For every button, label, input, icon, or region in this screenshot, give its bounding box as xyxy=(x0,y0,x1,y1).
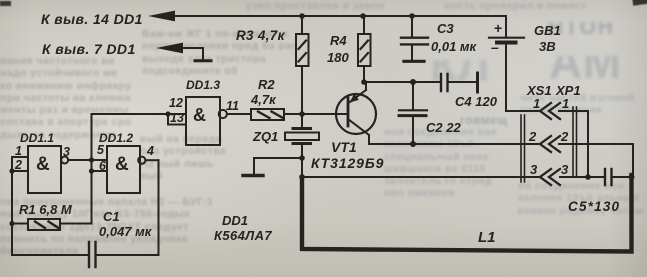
wire: ZQ1 bottom to common node xyxy=(301,145,303,158)
connector housing separation lines xyxy=(521,107,577,182)
wire: top supply rail xyxy=(172,15,506,17)
wire: arrowhead to pin 7 DD1 xyxy=(156,43,183,54)
svg-text:4: 4 xyxy=(146,144,154,158)
wire: pin 11 to R2 left xyxy=(227,113,251,115)
svg-text:1: 1 xyxy=(562,96,569,111)
svg-text:C3: C3 xyxy=(437,21,454,36)
ground: common-rail bar on pin-7 stub xyxy=(195,59,211,62)
node: junction dot rail/R3 xyxy=(299,13,305,19)
ground: chassis bar right of C4 xyxy=(476,73,479,92)
connector XP1 pin 1 contact xyxy=(549,103,560,119)
connector XP1 pin 3 contact xyxy=(549,169,560,185)
node: battery polarity signs xyxy=(491,20,502,55)
wire: pin-7 net stub xyxy=(180,48,203,60)
ground: chassis bar below C3 xyxy=(404,60,424,63)
svg-text:C5*130: C5*130 xyxy=(568,199,620,214)
transistor VT1 base bar xyxy=(347,98,350,126)
wire: DD1.1 output branch up to DD1.3 inputs 12/13 xyxy=(92,113,187,115)
node: junction dot ZQ1 bottom xyxy=(299,155,305,161)
pin numbers of XS1/XP1 xyxy=(528,96,569,177)
wire: rail to C3 top plate xyxy=(411,16,413,37)
wire: collector row to XS1 pin 2 xyxy=(369,143,540,145)
connector XS1 pin 2 contact xyxy=(540,136,551,152)
capacitor C5 xyxy=(605,169,612,185)
svg-text:3: 3 xyxy=(63,145,70,159)
node: inversion bubble DD1.3 output xyxy=(219,110,227,118)
svg-text:DD1: DD1 xyxy=(222,213,248,228)
svg-text:VT1: VT1 xyxy=(331,139,357,155)
wire: pin 6 stub xyxy=(92,170,108,172)
svg-text:2: 2 xyxy=(560,129,569,144)
capacitor C1 xyxy=(89,242,96,267)
transistor VT1 emitter lead (arrow toward base, PNP) xyxy=(350,90,366,102)
node: junction dot at pin 5 xyxy=(89,157,94,162)
node: junction dot R1 left xyxy=(9,221,14,226)
svg-text:C2 22: C2 22 xyxy=(426,120,461,135)
resistor R1 xyxy=(28,219,60,230)
wire: C1 right lead xyxy=(96,254,159,256)
node: junction dot base/R2/R3/ZQ1 xyxy=(299,111,305,117)
node: junction dot pins 1-2 xyxy=(9,168,14,173)
node: junction dot at pin 6 xyxy=(89,168,94,173)
node: junction dot pins 12-13 xyxy=(165,111,170,116)
gate DD1.2 body xyxy=(107,146,140,193)
designator VT1 КТ3129Б9 xyxy=(311,139,384,171)
svg-text:К выв. 14 DD1: К выв. 14 DD1 xyxy=(41,11,143,27)
ground: common bar left of ZQ1 xyxy=(243,174,263,177)
resistor R4 xyxy=(358,34,371,66)
node: junction dot loop top / C5 / pin 2 xyxy=(629,174,635,180)
wire: base node down to ZQ1 xyxy=(301,114,303,127)
svg-text:4,7к: 4,7к xyxy=(250,92,277,107)
svg-text:К564ЛА7: К564ЛА7 xyxy=(214,228,272,243)
node: junction dot R4/emitter xyxy=(361,79,367,85)
pin labels 12 13 11 of DD1.3 xyxy=(169,96,239,125)
svg-text:L1: L1 xyxy=(478,229,496,246)
pin labels 1 2 3 of DD1.1 xyxy=(14,144,70,172)
wire: R1 left lead xyxy=(12,223,28,225)
svg-text:6: 6 xyxy=(99,159,107,173)
designators XS1 XP1 xyxy=(526,83,581,98)
wire: common node down to loop corner xyxy=(301,158,303,177)
wire: battery minus down and right to XS1 pin 1 xyxy=(506,44,540,111)
value label R4 180 xyxy=(327,33,349,65)
wire: C1 left lead xyxy=(12,254,89,256)
svg-text:GB1: GB1 xyxy=(534,23,561,38)
svg-text:C4 120: C4 120 xyxy=(455,94,498,109)
value label C3 0,01 мк xyxy=(431,21,478,54)
wire: C5 right lead to loop xyxy=(612,176,631,178)
wire: R2 right lead to base node xyxy=(284,113,302,115)
svg-text:–: – xyxy=(491,39,499,55)
svg-text:DD1.3: DD1.3 xyxy=(186,78,220,92)
svg-text:2: 2 xyxy=(528,129,537,144)
svg-text:3: 3 xyxy=(530,162,538,177)
transistor VT1 collector lead xyxy=(348,119,369,144)
svg-text:11: 11 xyxy=(226,99,239,113)
wire: C2 top stub xyxy=(412,82,414,110)
svg-text:R4: R4 xyxy=(330,33,347,48)
battery GB1 positive plate xyxy=(489,37,524,39)
wire: R3 bottom to base node xyxy=(301,66,303,114)
wire: DD1.1 output to DD1.2 pin 5 xyxy=(68,159,107,161)
wire: DD1.1 input vertical down to R1/C1 xyxy=(11,157,13,255)
svg-text:2: 2 xyxy=(14,158,22,172)
resistor R3 xyxy=(296,34,309,66)
wire: rail corner down to battery xyxy=(505,16,507,36)
gate DD1.1 body xyxy=(28,146,61,193)
inductor L1 single-turn loop antenna xyxy=(302,175,632,252)
wire: common node left stub xyxy=(254,158,302,175)
svg-text:0,01 мк: 0,01 мк xyxy=(431,39,478,54)
svg-text:&: & xyxy=(115,154,129,175)
connector XS1 pin 1 contact xyxy=(540,103,551,119)
wire: R4 bottom to emitter node xyxy=(363,66,365,82)
node: junction dot at loop corner xyxy=(299,174,305,180)
wire: pin 4 corner down to C1 right xyxy=(158,160,160,255)
svg-text:180: 180 xyxy=(327,50,349,65)
svg-text:13: 13 xyxy=(170,111,184,125)
capacitor C2 xyxy=(399,110,427,115)
svg-text:DD1.1: DD1.1 xyxy=(20,131,54,145)
resistor R2 xyxy=(251,109,284,120)
wire: vertical from DD1.3 input line down through pins 5-6 to R1 xyxy=(91,114,93,224)
gate DD1.3 body xyxy=(186,97,220,145)
svg-text:3: 3 xyxy=(561,162,569,177)
wire: C3 bottom stub xyxy=(411,45,413,60)
node: junction dot C2 bottom xyxy=(410,141,416,147)
svg-text:&: & xyxy=(193,105,206,125)
svg-text:+: + xyxy=(494,20,502,36)
connector XP1 pin 2 contact xyxy=(549,136,560,152)
battery GB1 negative plate xyxy=(497,41,516,45)
wire: arrowhead to pin 14 DD1 xyxy=(148,11,175,22)
capacitor C4 xyxy=(441,74,448,91)
connector XS1 pin 3 contact xyxy=(540,169,551,185)
wire: DD1.2 output pin 4 xyxy=(146,159,159,161)
svg-text:5: 5 xyxy=(97,143,105,157)
value label C1 0,047 мк xyxy=(99,209,153,239)
svg-text:12: 12 xyxy=(169,96,183,110)
svg-text:ZQ1: ZQ1 xyxy=(252,129,278,144)
wire: common row to XS1 pin 3 xyxy=(302,176,540,178)
node: junction dot pin1/pin3 net xyxy=(585,174,591,180)
svg-text:1: 1 xyxy=(533,96,540,111)
wire: base lead from R2/ZQ1 node xyxy=(302,113,348,115)
transistor VT1 emitter arrowhead xyxy=(350,93,359,102)
svg-text:DD1.2: DD1.2 xyxy=(99,131,133,145)
transistor VT1 body circle xyxy=(336,94,376,134)
wire: C2 bottom stub xyxy=(412,116,414,144)
wire: emitter up to R4/C4 node xyxy=(365,82,367,90)
wire: supply rail to R3 top xyxy=(301,16,303,34)
wire: C4 right lead xyxy=(448,81,477,83)
wire: supply rail to R4 top xyxy=(363,16,365,34)
wire: pin 13 bracket xyxy=(168,114,186,125)
svg-text:R3 4,7к: R3 4,7к xyxy=(236,28,286,43)
wire: pin 1 stub xyxy=(12,156,28,158)
wire: XP1 pin 1 right and down xyxy=(559,111,588,177)
svg-text:3В: 3В xyxy=(539,39,556,54)
wire: XP1 pin 3 to C5 xyxy=(560,176,605,178)
capacitor C3 xyxy=(401,38,428,45)
node: junction dot C2 top xyxy=(410,79,416,85)
node: junction dot rail/R4 xyxy=(360,13,366,19)
svg-text:C1: C1 xyxy=(103,209,120,224)
chip label DD1 К564ЛА7 xyxy=(214,213,272,243)
pin labels 5 6 4 of DD1.2 xyxy=(97,143,154,173)
svg-text:КТ3129Б9: КТ3129Б9 xyxy=(311,155,384,171)
svg-text:1: 1 xyxy=(15,144,22,158)
wire: emitter node right to C4 left plate xyxy=(364,81,441,83)
node: inversion bubble DD1.2 output xyxy=(138,157,145,164)
svg-text:R2: R2 xyxy=(258,77,275,92)
wire: XP1 pin 2 right and down to loop top xyxy=(559,144,633,176)
wire: pin 2 stub xyxy=(12,170,28,172)
node: inversion bubble DD1.1 output xyxy=(61,157,68,164)
wire: R1 right lead to 5/6 vertical xyxy=(60,223,92,225)
value label R2 4,7к xyxy=(250,77,277,107)
svg-text:0,047 мк: 0,047 мк xyxy=(99,224,153,239)
node: junction dot rail/C3 xyxy=(409,13,415,19)
svg-text:К выв. 7 DD1: К выв. 7 DD1 xyxy=(42,41,136,57)
svg-text:R1 6,8 М: R1 6,8 М xyxy=(19,202,73,217)
crystal ZQ1 xyxy=(285,129,319,144)
value label GB1 3В xyxy=(534,23,561,54)
svg-text:&: & xyxy=(36,154,50,175)
